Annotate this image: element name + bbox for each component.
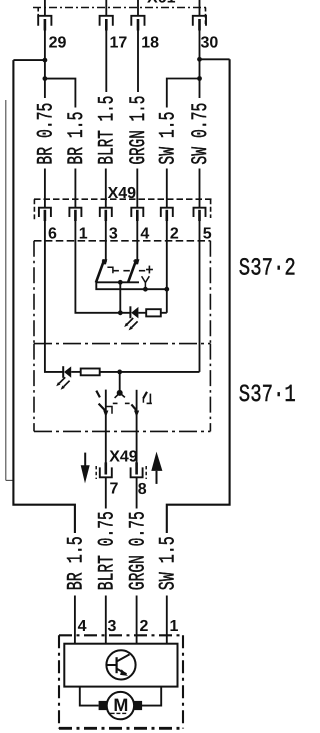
X49 socket pin 6 — [39, 208, 51, 221]
X49 socket pin 7 — [100, 462, 112, 477]
svg-text:SW 0.75: SW 0.75 — [188, 103, 213, 165]
junction dot pivot mount / bus lower — [143, 287, 148, 292]
direction arrow down — [81, 453, 90, 484]
svg-text:S37·1: S37·1 — [239, 382, 296, 409]
pivot mount V mark — [142, 276, 150, 289]
S37.2 switch block dashed box — [34, 241, 210, 344]
wire branch SW 1.5 — [167, 79, 200, 108]
svg-text:29: 29 — [49, 34, 67, 51]
svg-text:BLRT 1.5: BLRT 1.5 — [94, 96, 119, 165]
junction dot pin30/SW1.5 branch — [197, 76, 202, 81]
svg-text:BR 0.75: BR 0.75 — [34, 103, 59, 165]
connector X49 upper dashed outline — [34, 199, 212, 219]
mechanical coupling dashed line S37.1 — [113, 402, 152, 404]
svg-text:SW 1.5: SW 1.5 — [155, 112, 180, 165]
junction dot LED row — [118, 310, 123, 315]
wire controller to motor left — [80, 687, 99, 706]
actuator tick S37.2 — [146, 266, 153, 274]
X49 socket pin 3 — [100, 208, 112, 221]
drop wire bus to LED row — [119, 282, 121, 313]
wire stubs above sockets — [45, 0, 200, 16]
S37.2 common bus upper — [96, 281, 139, 283]
S37.1 switch left (to pin 7) — [105, 390, 107, 432]
X49 socket pin 1 — [69, 208, 81, 221]
actuator tick S37.1 — [149, 394, 151, 404]
switch common fork — [117, 390, 123, 396]
outer wire loop left side — [13, 60, 75, 533]
X49 socket pin 2 — [161, 208, 173, 221]
drop wire to switch common fork — [119, 372, 121, 393]
svg-text:8: 8 — [138, 481, 147, 498]
wire 5 down to S37.1 LED row — [199, 221, 201, 372]
X49 lower dashed edges — [96, 466, 146, 479]
svg-text:18: 18 — [141, 34, 159, 51]
junction dot S37.1 LED row — [117, 370, 122, 375]
wire 6 down to S37.1 LED row — [45, 221, 63, 372]
controller box — [64, 644, 177, 687]
wire pin29 down with branches — [45, 27, 200, 98]
S37.2 switch lever left — [96, 260, 104, 283]
S37.2 common bus lower — [96, 282, 167, 289]
S37.1 switch block dashed box — [34, 344, 210, 432]
X49 socket pin 4 — [131, 208, 143, 221]
svg-text:BLRT 0.75: BLRT 0.75 — [94, 511, 119, 590]
svg-text:4: 4 — [78, 618, 87, 635]
svg-text:BR 1.5: BR 1.5 — [64, 112, 89, 165]
motor M1 — [99, 692, 142, 719]
svg-text:X49: X49 — [108, 185, 137, 202]
wire 3 into S37.2 switch contact — [102, 221, 106, 262]
resistor S37.1 — [81, 369, 100, 376]
wire resistor to wire2 — [161, 312, 167, 314]
blower unit dash-dot box — [59, 635, 183, 728]
LED S37.2 (illumination) — [130, 306, 146, 318]
junction dot pin29/BR1.5 branch — [43, 76, 48, 81]
junction dot pin29/outer-left — [43, 58, 48, 63]
socket pin 30 — [193, 16, 206, 31]
wire branch to outer loop right — [200, 58, 230, 60]
svg-text:1: 1 — [170, 618, 179, 635]
junction dot bus upper / LED drop — [118, 280, 123, 285]
wires from labels down into component box — [75, 596, 167, 645]
wire 1 down to S37.2 LED row — [75, 221, 130, 313]
svg-text:SW 1.5: SW 1.5 — [155, 536, 180, 590]
junction dot wire2 / bus lower — [164, 287, 169, 292]
transistor circle symbol — [106, 650, 135, 679]
svg-text:7: 7 — [110, 480, 119, 497]
svg-text:X61: X61 — [147, 0, 176, 7]
wire 2 into S37.2 — [166, 221, 168, 313]
svg-text:30: 30 — [201, 34, 219, 51]
X49 socket pin 8 — [131, 462, 143, 477]
wires from labels down to X49 — [45, 169, 200, 208]
svg-text:3: 3 — [108, 618, 117, 635]
direction arrow up — [151, 452, 162, 484]
svg-text:BR 1.5: BR 1.5 — [64, 536, 89, 590]
socket pin 18 — [131, 16, 144, 31]
LED S37.1 (illumination) — [63, 366, 80, 378]
S37.1 switch right (to pin 8) — [136, 390, 138, 432]
svg-text:2: 2 — [140, 618, 149, 635]
wire branch to outer loop left — [13, 59, 45, 61]
junction dot pin30/outer-right — [197, 57, 202, 62]
scan artifact page-edge line — [6, 100, 14, 480]
motor underline dashes — [110, 712, 126, 714]
wire controller to motor right — [142, 687, 161, 706]
svg-text:S37·2: S37·2 — [239, 256, 296, 283]
wires below X49 lower — [106, 477, 137, 508]
X49 socket pin 5 — [194, 208, 206, 221]
mechanical coupling dashed line S37.2 — [113, 270, 146, 272]
S37.1 LED row wire to wire5 — [100, 371, 200, 373]
socket pin 29 — [38, 16, 51, 31]
S37.2 switch lever right — [128, 260, 136, 283]
connector X61 dashed outline (cut off at top) — [33, 8, 206, 25]
wire branch BR 1.5 — [45, 79, 76, 108]
wire 4 into S37.2 switch contact — [133, 221, 137, 262]
LED emission arrows S37.1 — [56, 377, 69, 389]
wires from S37.1 to X49 lower — [106, 432, 137, 464]
S37.2 switch left contact hook — [107, 267, 113, 273]
svg-text:M: M — [113, 695, 128, 715]
outer wire loop right side — [167, 59, 230, 533]
svg-text:X49: X49 — [109, 448, 138, 465]
svg-text:GRGN 1.5: GRGN 1.5 — [126, 96, 151, 165]
resistor S37.2 — [146, 309, 161, 316]
LED emission arrows S37.2 — [124, 318, 137, 330]
svg-text:17: 17 — [110, 34, 128, 51]
socket pin 17 — [100, 16, 113, 31]
svg-text:GRGN 0.75: GRGN 0.75 — [126, 511, 151, 590]
